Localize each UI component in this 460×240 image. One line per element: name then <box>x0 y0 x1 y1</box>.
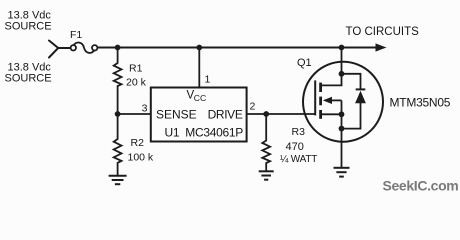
wire drain to channel <box>321 74 342 86</box>
svg-text:SeekIC.com: SeekIC.com <box>383 178 459 194</box>
node bus-pin1 junction <box>196 45 202 51</box>
diode body (cathode bar and triangle) <box>342 89 366 128</box>
arrow to circuits <box>376 43 387 51</box>
svg-text:R3: R3 <box>292 126 306 138</box>
label VCC <box>187 90 207 103</box>
svg-text:Q1: Q1 <box>297 57 312 69</box>
wire source to ground <box>341 129 343 168</box>
ground below R2 <box>109 176 127 184</box>
resistor R3 <box>262 114 270 171</box>
svg-text:R1: R1 <box>129 63 143 75</box>
transistor Q1 circle <box>303 62 383 142</box>
transistor Q1 gate bar <box>314 80 316 115</box>
svg-text:TO CIRCUITS: TO CIRCUITS <box>346 26 420 38</box>
label R3 470 1/4 WATT <box>280 126 317 165</box>
node source junction <box>339 111 345 117</box>
node drive-R3 junction <box>263 111 269 117</box>
svg-text:20 k: 20 k <box>126 77 147 89</box>
svg-text:SOURCE: SOURCE <box>5 21 52 33</box>
node drain junction <box>339 71 345 77</box>
svg-text:¼ WATT: ¼ WATT <box>280 153 317 165</box>
svg-text:SOURCE: SOURCE <box>5 73 52 85</box>
wire pin3 to junction <box>118 113 151 115</box>
svg-text:100 k: 100 k <box>128 152 154 164</box>
transistor Q1 channel bars <box>319 83 322 119</box>
svg-text:U1 MC34061P: U1 MC34061P <box>165 126 244 140</box>
node bus-R1 junction <box>115 45 121 51</box>
wire source bottom connection <box>321 113 342 115</box>
svg-text:F1: F1 <box>70 29 82 41</box>
label R1 20 k <box>126 63 147 89</box>
svg-text:470: 470 <box>286 141 304 153</box>
wire pin1 to bus <box>198 48 200 88</box>
wire main positive bus <box>97 47 376 49</box>
ground below Q1 source <box>334 168 350 177</box>
resistor R2 <box>114 114 122 175</box>
wire source Y-junction <box>49 41 71 58</box>
svg-text:R2: R2 <box>131 137 145 149</box>
svg-text:MTM35N05: MTM35N05 <box>390 96 451 110</box>
svg-text:1: 1 <box>205 74 211 86</box>
label R2 100 k <box>128 137 154 164</box>
wire pin2 drive to gate <box>247 113 315 115</box>
svg-text:CC: CC <box>194 93 206 103</box>
transistor Q1 body arrow <box>323 97 342 104</box>
ground below R3 <box>259 171 274 179</box>
wire body to source <box>341 100 343 128</box>
svg-text:SENSE: SENSE <box>156 108 197 122</box>
op-amp/regulator U1 MC34061P box <box>151 88 247 142</box>
node sense junction <box>115 111 121 117</box>
svg-text:2: 2 <box>250 101 256 113</box>
node bus-drain junction <box>339 45 345 51</box>
label 13.8 Vdc SOURCE (upper) <box>5 10 52 33</box>
wire drain from bus <box>341 48 343 74</box>
wire drain to diode cathode <box>342 74 361 89</box>
svg-text:3: 3 <box>142 103 148 115</box>
label 13.8 Vdc SOURCE (lower) <box>5 62 52 85</box>
resistor R1 <box>114 48 122 115</box>
node diode anode junction <box>339 126 345 132</box>
fuse F1 <box>71 43 98 53</box>
svg-text:DRIVE: DRIVE <box>208 108 243 122</box>
